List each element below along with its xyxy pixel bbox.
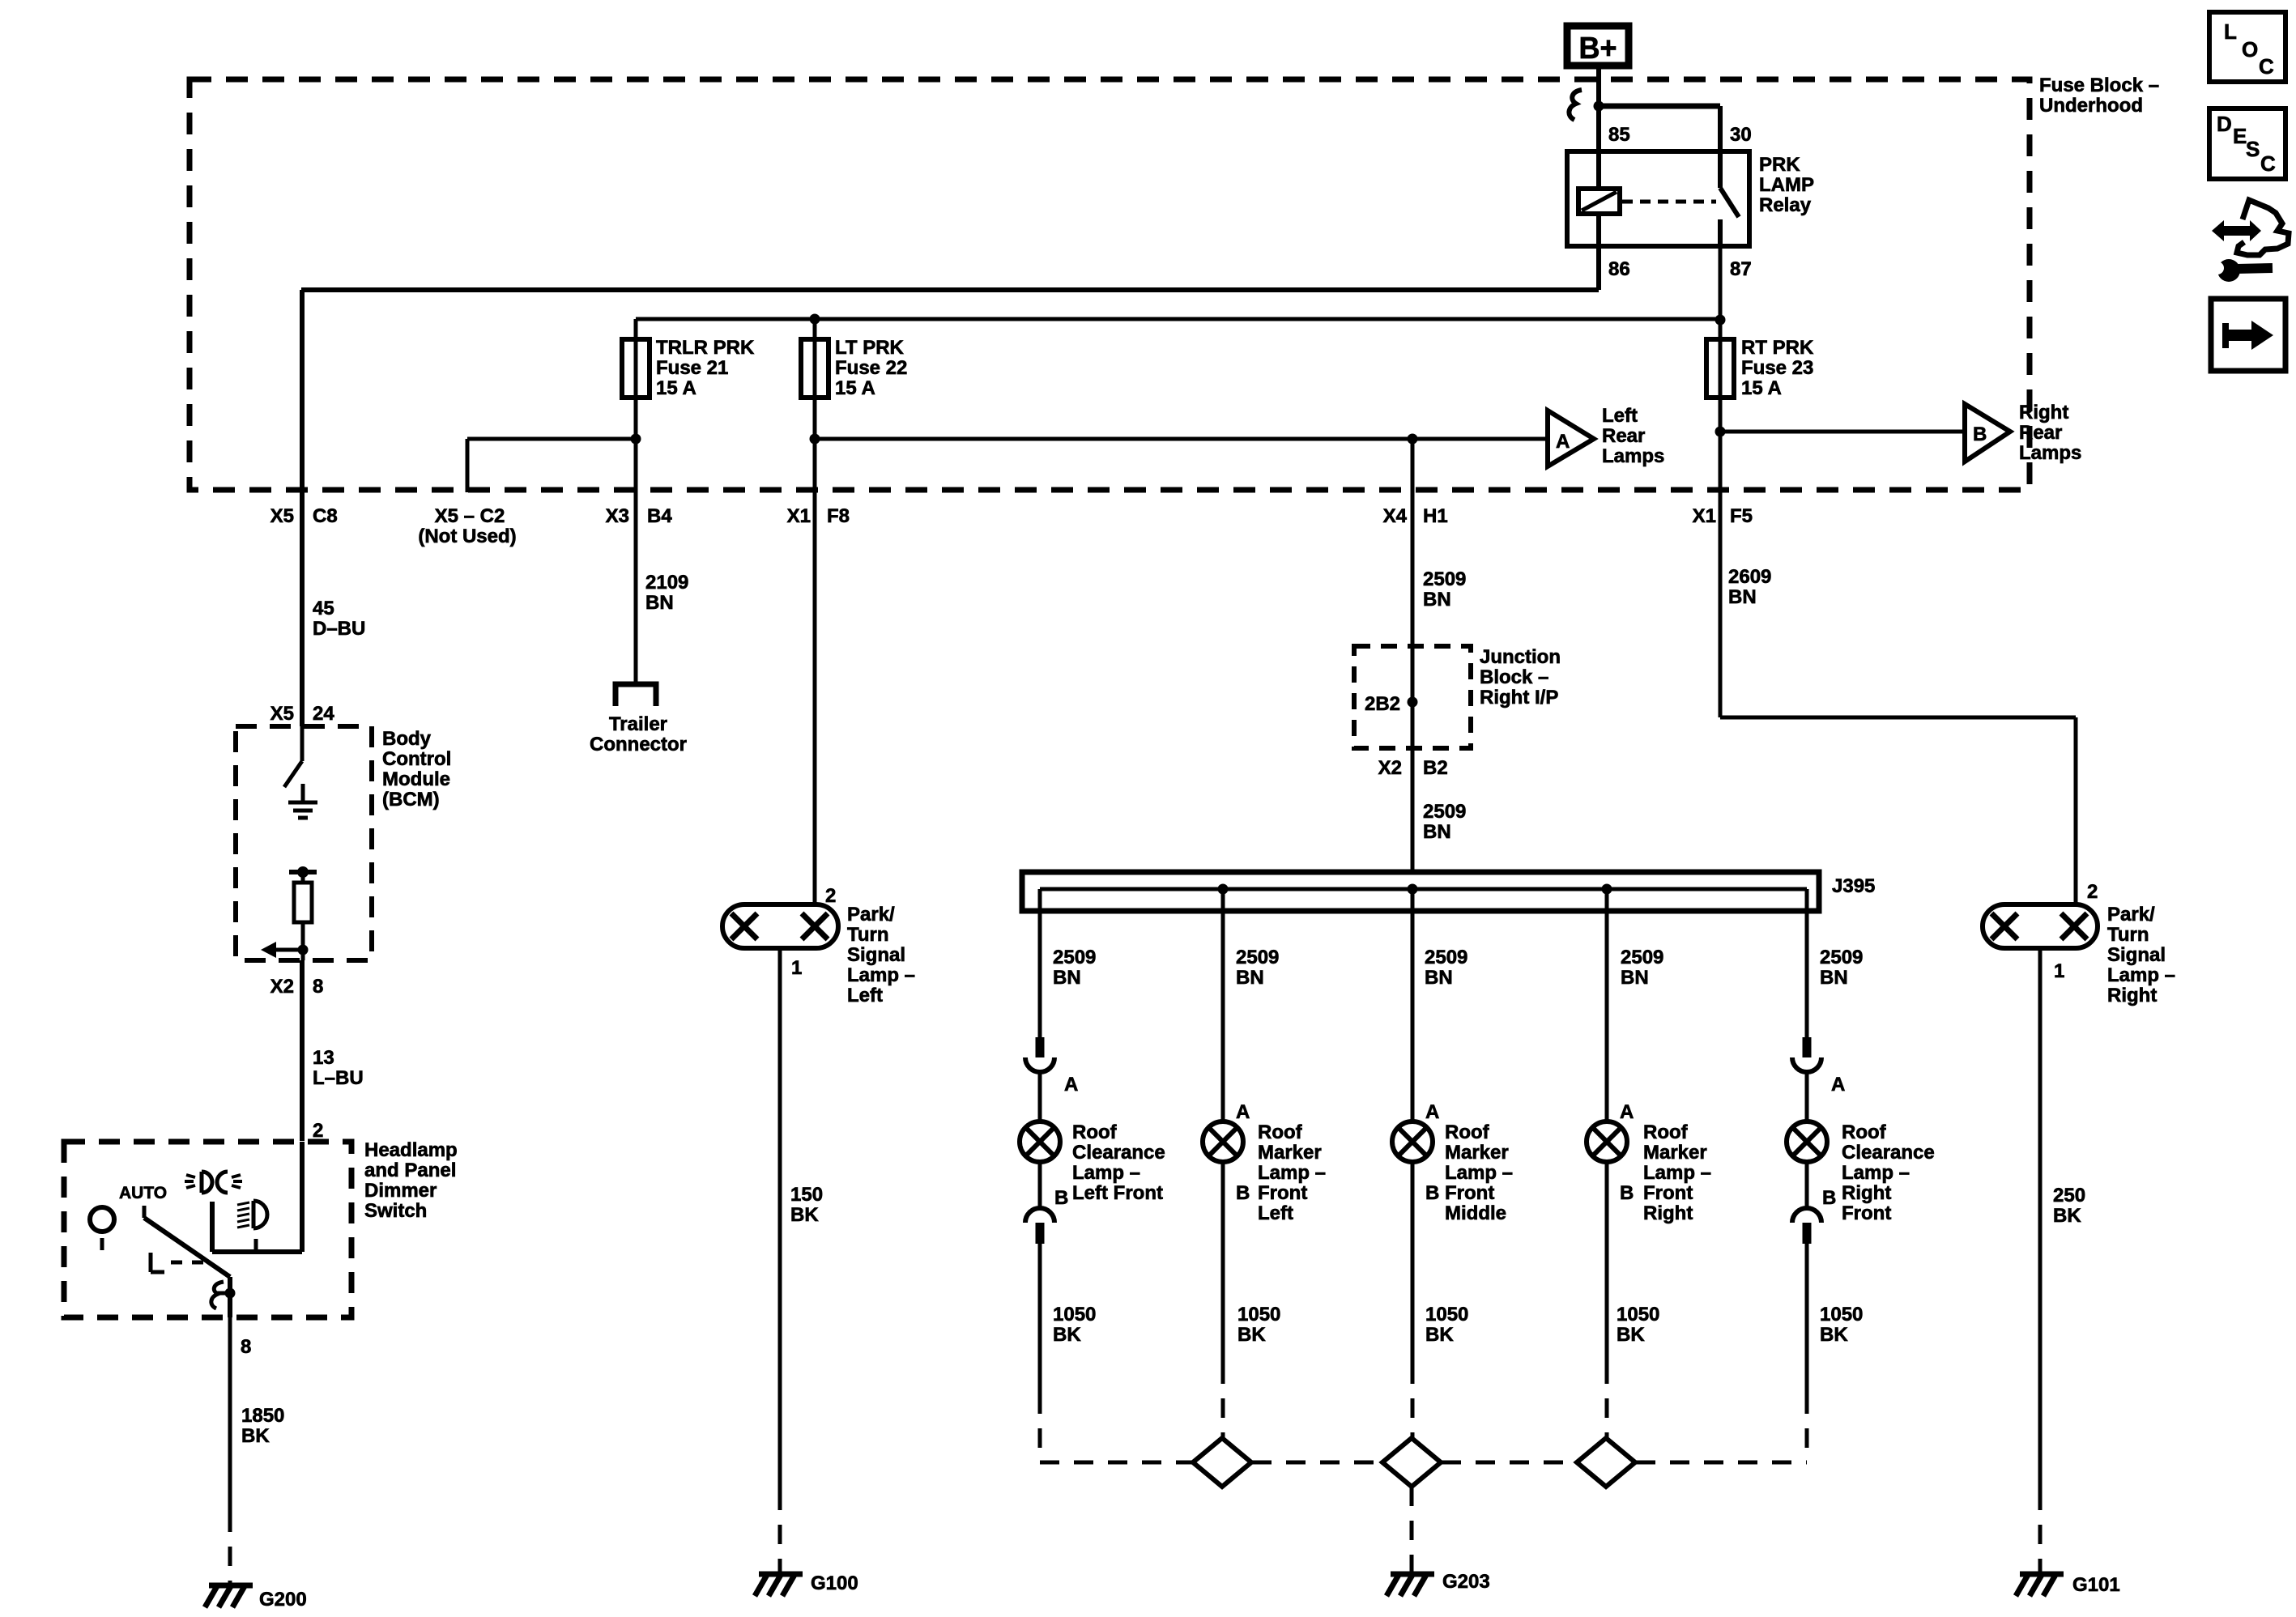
svg-text:Lamp –: Lamp – [847, 964, 915, 986]
svg-text:Relay: Relay [1759, 194, 1812, 216]
svg-text:8: 8 [241, 1336, 251, 1358]
svg-text:BK: BK [2053, 1205, 2081, 1227]
svg-text:Lamp –: Lamp – [1445, 1162, 1513, 1184]
svg-text:G100: G100 [811, 1572, 858, 1594]
svg-text:H1: H1 [1423, 505, 1448, 527]
svg-text:C: C [2260, 151, 2276, 176]
svg-text:Rear: Rear [2019, 422, 2062, 444]
svg-text:A: A [1236, 1101, 1250, 1123]
svg-text:Switch: Switch [364, 1200, 427, 1222]
svg-text:D: D [2217, 112, 2232, 136]
svg-text:BK: BK [241, 1425, 270, 1447]
svg-text:C8: C8 [313, 505, 338, 527]
svg-text:BN: BN [645, 592, 674, 614]
svg-text:2109: 2109 [645, 572, 688, 594]
svg-text:Middle: Middle [1445, 1202, 1506, 1224]
svg-text:Clearance: Clearance [1072, 1142, 1165, 1164]
svg-text:Clearance: Clearance [1842, 1142, 1935, 1164]
svg-text:BN: BN [1425, 967, 1453, 989]
svg-text:BK: BK [1425, 1324, 1454, 1346]
svg-text:A: A [1064, 1074, 1078, 1096]
svg-text:Roof: Roof [1445, 1121, 1490, 1143]
svg-text:Lamp –: Lamp – [1072, 1162, 1140, 1184]
svg-text:Trailer: Trailer [609, 713, 667, 735]
svg-text:2509: 2509 [1423, 568, 1466, 590]
svg-text:Fuse 21: Fuse 21 [656, 357, 728, 379]
svg-text:15 A: 15 A [1741, 377, 1782, 399]
svg-text:1850: 1850 [241, 1405, 284, 1427]
svg-text:Turn: Turn [847, 924, 889, 946]
svg-text:F8: F8 [827, 505, 850, 527]
svg-text:B: B [1822, 1187, 1836, 1209]
svg-text:Roof: Roof [1842, 1121, 1887, 1143]
svg-text:A: A [1425, 1101, 1439, 1123]
svg-text:24: 24 [313, 703, 334, 725]
svg-text:15 A: 15 A [656, 377, 696, 399]
svg-text:D–BU: D–BU [313, 618, 365, 640]
svg-text:BK: BK [1053, 1324, 1081, 1346]
svg-text:1: 1 [2054, 960, 2064, 982]
svg-text:(Not Used): (Not Used) [418, 526, 516, 547]
svg-text:B4: B4 [647, 505, 672, 527]
svg-text:Body: Body [382, 728, 432, 750]
svg-text:Left: Left [1602, 405, 1638, 427]
svg-text:45: 45 [313, 598, 334, 619]
svg-text:Junction: Junction [1480, 646, 1561, 668]
svg-text:A: A [1831, 1074, 1845, 1096]
svg-text:B: B [1973, 423, 1987, 445]
svg-text:Marker: Marker [1258, 1142, 1322, 1164]
svg-text:1050: 1050 [1053, 1304, 1096, 1326]
svg-text:BN: BN [1423, 589, 1451, 611]
svg-text:G203: G203 [1442, 1571, 1490, 1593]
svg-text:Module: Module [382, 768, 450, 790]
svg-text:L: L [2224, 19, 2237, 44]
svg-text:Right: Right [2107, 985, 2157, 1006]
svg-text:Front: Front [1258, 1182, 1307, 1204]
svg-text:O: O [2242, 37, 2258, 62]
svg-text:J395: J395 [1832, 875, 1875, 897]
svg-text:Signal: Signal [2107, 944, 2166, 966]
svg-text:BN: BN [1053, 967, 1081, 989]
svg-text:Turn: Turn [2107, 924, 2149, 946]
svg-text:X1: X1 [1693, 505, 1716, 527]
svg-text:2609: 2609 [1728, 566, 1771, 588]
svg-text:X5: X5 [270, 505, 294, 527]
svg-text:85: 85 [1608, 124, 1630, 146]
svg-text:250: 250 [2053, 1185, 2085, 1206]
svg-text:X1: X1 [787, 505, 811, 527]
svg-text:Underhood: Underhood [2039, 95, 2143, 117]
svg-text:BN: BN [1423, 821, 1451, 843]
svg-text:Lamps: Lamps [1602, 445, 1664, 467]
svg-text:8: 8 [313, 976, 323, 998]
svg-text:87: 87 [1730, 258, 1752, 280]
svg-text:TRLR PRK: TRLR PRK [656, 337, 755, 359]
svg-text:A: A [1556, 431, 1570, 453]
svg-text:G200: G200 [259, 1589, 307, 1611]
svg-text:Marker: Marker [1445, 1142, 1509, 1164]
svg-text:B2: B2 [1423, 757, 1448, 779]
svg-text:Fuse Block –: Fuse Block – [2039, 74, 2159, 96]
svg-text:2509: 2509 [1425, 947, 1467, 968]
svg-text:BN: BN [1621, 967, 1649, 989]
svg-text:Connector: Connector [590, 734, 687, 755]
svg-text:Right I/P: Right I/P [1480, 687, 1558, 709]
svg-text:RT PRK: RT PRK [1741, 337, 1814, 359]
svg-text:Block –: Block – [1480, 666, 1548, 688]
svg-text:Lamp –: Lamp – [1842, 1162, 1910, 1184]
svg-text:1: 1 [791, 957, 802, 979]
svg-text:Headlamp: Headlamp [364, 1139, 458, 1161]
svg-text:and Panel: and Panel [364, 1160, 456, 1181]
svg-text:Lamp –: Lamp – [1258, 1162, 1326, 1184]
svg-text:1050: 1050 [1617, 1304, 1659, 1326]
svg-text:1050: 1050 [1820, 1304, 1863, 1326]
svg-text:Front: Front [1643, 1182, 1693, 1204]
svg-text:B: B [1236, 1182, 1250, 1204]
svg-text:2B2: 2B2 [1365, 693, 1400, 715]
svg-text:L–BU: L–BU [313, 1067, 364, 1089]
svg-text:X2: X2 [270, 976, 294, 998]
svg-text:Fuse 22: Fuse 22 [835, 357, 907, 379]
svg-text:Lamp –: Lamp – [2107, 964, 2175, 986]
svg-text:X5: X5 [270, 703, 294, 725]
svg-text:2: 2 [2087, 881, 2098, 903]
svg-text:LAMP: LAMP [1759, 174, 1814, 196]
svg-text:B: B [1054, 1187, 1068, 1209]
svg-text:X2: X2 [1378, 757, 1402, 779]
svg-text:Front: Front [1842, 1202, 1891, 1224]
svg-text:B: B [1620, 1182, 1634, 1204]
svg-text:F5: F5 [1730, 505, 1753, 527]
svg-text:Marker: Marker [1643, 1142, 1707, 1164]
svg-text:BK: BK [790, 1204, 819, 1226]
svg-text:Left: Left [1258, 1202, 1293, 1224]
svg-text:B+: B+ [1579, 32, 1617, 66]
svg-text:Park/: Park/ [2107, 904, 2155, 926]
svg-text:Lamp –: Lamp – [1643, 1162, 1711, 1184]
svg-text:Roof: Roof [1643, 1121, 1689, 1143]
svg-text:Roof: Roof [1072, 1121, 1118, 1143]
svg-text:150: 150 [790, 1184, 823, 1206]
svg-text:2509: 2509 [1820, 947, 1863, 968]
svg-text:2509: 2509 [1236, 947, 1279, 968]
svg-text:2: 2 [313, 1120, 323, 1142]
svg-text:X5 – C2: X5 – C2 [435, 505, 505, 527]
svg-text:BN: BN [1728, 586, 1757, 608]
svg-text:15 A: 15 A [835, 377, 875, 399]
svg-text:BN: BN [1236, 967, 1264, 989]
svg-text:Left: Left [847, 985, 883, 1006]
svg-text:S: S [2246, 137, 2260, 161]
svg-text:86: 86 [1608, 258, 1630, 280]
svg-text:Dimmer: Dimmer [364, 1180, 437, 1202]
svg-text:E: E [2233, 124, 2247, 148]
svg-text:Lamps: Lamps [2019, 442, 2081, 464]
svg-text:1050: 1050 [1425, 1304, 1468, 1326]
svg-text:X3: X3 [606, 505, 629, 527]
svg-text:AUTO: AUTO [119, 1184, 167, 1202]
svg-text:2509: 2509 [1621, 947, 1663, 968]
svg-text:Right: Right [1842, 1182, 1891, 1204]
svg-text:LT PRK: LT PRK [835, 337, 905, 359]
svg-text:(BCM): (BCM) [382, 789, 440, 811]
svg-text:Rear: Rear [1602, 425, 1645, 447]
svg-text:Park/: Park/ [847, 904, 895, 926]
svg-text:BK: BK [1237, 1324, 1266, 1346]
svg-text:BN: BN [1820, 967, 1848, 989]
svg-text:PRK: PRK [1759, 154, 1800, 176]
svg-text:X4: X4 [1383, 505, 1408, 527]
svg-text:BK: BK [1820, 1324, 1848, 1346]
svg-text:G101: G101 [2072, 1574, 2120, 1596]
svg-text:C: C [2259, 54, 2274, 79]
svg-text:30: 30 [1730, 124, 1752, 146]
svg-text:2509: 2509 [1053, 947, 1096, 968]
svg-text:Control: Control [382, 748, 451, 770]
svg-text:Right: Right [1643, 1202, 1693, 1224]
svg-text:1050: 1050 [1237, 1304, 1280, 1326]
svg-text:13: 13 [313, 1047, 334, 1069]
svg-text:2: 2 [825, 885, 836, 907]
svg-text:BK: BK [1617, 1324, 1645, 1346]
svg-text:Front: Front [1445, 1182, 1494, 1204]
svg-text:Fuse 23: Fuse 23 [1741, 357, 1813, 379]
svg-text:Roof: Roof [1258, 1121, 1303, 1143]
svg-text:Right: Right [2019, 402, 2068, 423]
svg-text:Left Front: Left Front [1072, 1182, 1163, 1204]
svg-text:2509: 2509 [1423, 801, 1466, 823]
svg-text:B: B [1425, 1182, 1439, 1204]
svg-text:Signal: Signal [847, 944, 905, 966]
svg-text:A: A [1620, 1101, 1634, 1123]
